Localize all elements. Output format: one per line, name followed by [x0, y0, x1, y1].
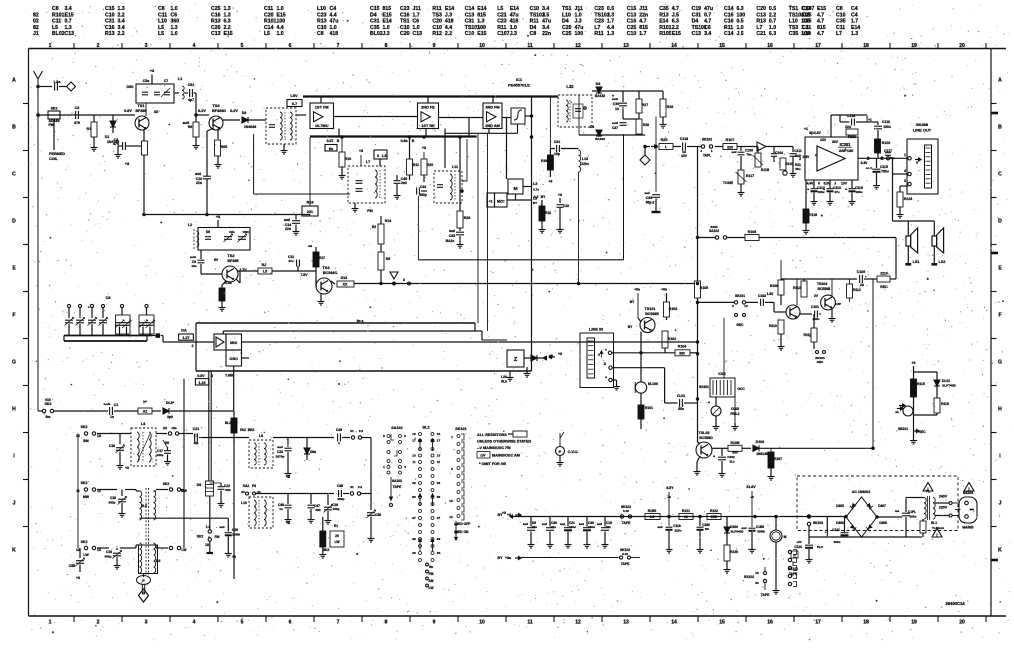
svg-text:1.5: 1.5 [650, 515, 655, 519]
svg-text:R101: R101 [645, 406, 653, 410]
svg-text:12: 12 [449, 515, 453, 519]
svg-text:SK102: SK102 [788, 567, 798, 571]
svg-text:SK2: SK2 [81, 425, 88, 429]
svg-text:MAINS: MAINS [962, 526, 974, 530]
svg-text:8.8: 8.8 [156, 559, 161, 563]
svg-text:C11: C11 [158, 12, 167, 18]
svg-text:4.4: 4.4 [445, 25, 452, 31]
svg-text:4.7: 4.7 [817, 12, 824, 18]
svg-text:18: 18 [863, 620, 869, 626]
svg-text:R11: R11 [497, 25, 506, 31]
svg-text:C25: C25 [627, 25, 637, 31]
svg-text:9: 9 [433, 43, 436, 49]
svg-text:33: 33 [755, 581, 759, 585]
svg-text:220u: 220u [675, 529, 682, 533]
svg-text:R112: R112 [853, 288, 861, 292]
svg-text:+3: +3 [232, 555, 236, 559]
svg-text:C25: C25 [562, 31, 572, 37]
svg-text:C106: C106 [857, 270, 865, 274]
svg-text:D1: D1 [105, 135, 110, 139]
svg-text:C16: C16 [106, 550, 112, 554]
svg-text:R65: R65 [221, 145, 227, 149]
svg-text:82: 82 [33, 25, 39, 31]
svg-text:TS4: TS4 [322, 265, 330, 270]
svg-text:100M: 100M [232, 533, 240, 537]
svg-text:L10: L10 [241, 501, 247, 505]
svg-text:0.10: 0.10 [622, 552, 628, 556]
svg-text:L11: L11 [452, 165, 458, 169]
svg-text:9Ln: 9Ln [501, 380, 507, 384]
svg-text:C25: C25 [802, 19, 812, 25]
svg-text:PERMED: PERMED [49, 152, 65, 156]
svg-text:15: 15 [719, 43, 725, 49]
svg-text:J11: J11 [413, 6, 421, 12]
svg-text:17: 17 [412, 439, 416, 443]
svg-text:R116: R116 [941, 402, 949, 406]
svg-text:2: 2 [192, 344, 194, 348]
svg-text:C31: C31 [465, 19, 475, 25]
svg-text:C20: C20 [432, 19, 442, 25]
svg-text:BA182: BA182 [595, 94, 605, 98]
svg-text:R27: R27 [642, 103, 648, 107]
svg-text:9: 9 [732, 304, 734, 308]
svg-text:L5V: L5V [290, 93, 298, 98]
svg-text:R11: R11 [594, 31, 603, 37]
svg-text:10: 10 [479, 620, 485, 626]
svg-text:SK103: SK103 [813, 521, 823, 525]
svg-text:1.0: 1.0 [510, 25, 517, 31]
svg-text:SK101: SK101 [735, 294, 745, 298]
svg-text:C16: C16 [109, 444, 115, 448]
svg-text:C31: C31 [692, 12, 702, 18]
svg-text:1.0: 1.0 [277, 6, 284, 12]
svg-text:C20: C20 [562, 25, 572, 31]
svg-text:R1: R1 [87, 127, 92, 131]
svg-text:SA102: SA102 [709, 229, 719, 233]
svg-text:TS104: TS104 [817, 282, 827, 286]
svg-text:E15: E15 [383, 12, 392, 18]
svg-text:6.3: 6.3 [737, 6, 744, 12]
svg-text:R11B: R11B [761, 168, 770, 172]
svg-text:29: 29 [412, 537, 416, 541]
svg-text:5: 5 [383, 434, 385, 438]
svg-text:M: M [513, 186, 517, 192]
svg-text:2.2: 2.2 [769, 12, 776, 18]
svg-text:360: 360 [171, 19, 180, 25]
svg-text:6s: 6s [329, 147, 333, 151]
svg-text:2.2: 2.2 [359, 429, 364, 433]
svg-text:1: 1 [904, 153, 906, 157]
svg-text:LW: LW [335, 540, 341, 544]
svg-text:+3: +3 [911, 361, 915, 365]
svg-text:5: 5 [451, 467, 453, 471]
svg-text:E14: E14 [445, 6, 454, 12]
svg-text:SK2: SK2 [163, 482, 170, 486]
svg-text:C6: C6 [171, 12, 178, 18]
svg-text:R13: R13 [545, 211, 551, 215]
svg-text:C107: C107 [802, 6, 814, 12]
svg-text:R10B: R10B [731, 441, 740, 445]
svg-text:AM: AM [428, 579, 433, 583]
svg-text:16: 16 [755, 571, 759, 575]
svg-text:10: 10 [479, 43, 485, 49]
svg-text:0.9a: 0.9a [401, 139, 408, 143]
svg-text:D405: D405 [836, 504, 844, 508]
svg-text:C: C [12, 172, 16, 178]
svg-text:aud: aud [277, 445, 283, 449]
svg-text:K: K [998, 548, 1002, 554]
svg-text:41u: 41u [551, 525, 556, 529]
svg-text:C21: C21 [756, 31, 766, 37]
svg-text:C16: C16 [724, 19, 734, 25]
svg-text:4.4: 4.4 [330, 12, 337, 18]
svg-text:Im a: Im a [357, 319, 364, 323]
svg-text:4.7: 4.7 [817, 19, 824, 25]
svg-text:120p: 120p [156, 453, 163, 457]
svg-text:4.7: 4.7 [672, 6, 679, 12]
svg-text:R104: R104 [678, 345, 686, 349]
svg-text:22n: 22n [285, 227, 291, 231]
svg-text:78a: 78a [746, 153, 751, 157]
svg-text:J.5: J.5 [542, 12, 549, 18]
svg-text:1.6V: 1.6V [767, 292, 775, 296]
svg-text:1.3: 1.3 [607, 31, 614, 37]
svg-text:1.7: 1.7 [413, 12, 420, 18]
svg-text:4/p: 4/p [194, 441, 199, 445]
svg-text:4p7: 4p7 [188, 98, 194, 102]
svg-text:2: 2 [97, 620, 100, 626]
svg-text:R101: R101 [659, 25, 671, 31]
svg-text:L5: L5 [264, 31, 270, 37]
svg-text:D13: D13 [341, 276, 347, 280]
svg-text:+1: +1 [804, 127, 808, 131]
svg-text:2n2: 2n2 [401, 181, 407, 185]
svg-text:C14: C14 [724, 31, 734, 37]
svg-text:aud: aud [284, 218, 290, 222]
svg-text:R105: R105 [700, 286, 708, 290]
svg-text:R13: R13 [211, 19, 221, 25]
svg-text:MZC: MZC [497, 200, 505, 204]
svg-text:(0): (0) [163, 426, 167, 430]
svg-text:R10: R10 [345, 157, 351, 161]
svg-text:B4103: B4103 [963, 491, 973, 495]
svg-text:2: 2 [404, 434, 406, 438]
svg-text:C10: C10 [530, 6, 540, 12]
svg-text:OSC: OSC [229, 356, 238, 361]
svg-text:16: 16 [437, 432, 441, 436]
svg-text:47u: 47u [575, 25, 584, 31]
svg-text:11: 11 [527, 620, 533, 626]
svg-text:21: 21 [350, 429, 354, 433]
svg-text:2.8P: 2.8P [835, 302, 841, 306]
svg-text:22u: 22u [845, 125, 851, 129]
svg-text:auG: auG [612, 97, 619, 101]
svg-text:19: 19 [911, 620, 917, 626]
svg-text:auG: auG [190, 255, 197, 259]
svg-text:C5a: C5a [143, 79, 149, 83]
svg-text:0.7: 0.7 [769, 19, 776, 25]
svg-text:0.7: 0.7 [704, 12, 711, 18]
svg-text:R12: R12 [432, 31, 442, 37]
svg-text:27: 27 [437, 516, 441, 520]
svg-text:L20: L20 [501, 375, 507, 379]
svg-text:C124: C124 [794, 545, 802, 549]
svg-text:AC 1N4002: AC 1N4002 [852, 490, 870, 494]
svg-text:C4: C4 [330, 6, 337, 12]
svg-text:L8: L8 [259, 434, 263, 438]
svg-text:3RD FM: 3RD FM [485, 106, 499, 110]
svg-text:3: 3 [904, 179, 906, 183]
svg-text:815: 815 [817, 25, 826, 31]
svg-text:02: 02 [33, 19, 39, 25]
svg-text:2Lu: 2Lu [729, 460, 734, 464]
svg-text:0.57: 0.57 [327, 139, 334, 143]
svg-text:7: 7 [337, 43, 340, 49]
svg-text:100u: 100u [883, 125, 891, 129]
svg-text:C61: C61 [188, 83, 194, 87]
svg-text:S102: S102 [710, 225, 717, 229]
svg-text:TS3: TS3 [212, 103, 220, 108]
svg-text:C5B: C5B [69, 564, 76, 568]
svg-text:REC: REC [737, 323, 745, 327]
svg-text:SK2: SK2 [81, 481, 88, 485]
svg-text:6: 6 [289, 620, 292, 626]
svg-text:XX: XX [343, 283, 348, 287]
svg-text:6.3: 6.3 [769, 31, 776, 37]
svg-text:3: 3 [377, 154, 379, 158]
svg-text:10V: 10V [841, 182, 848, 186]
svg-text:IC301: IC301 [840, 142, 852, 147]
svg-text:13: 13 [623, 43, 629, 49]
svg-text:aud: aud [523, 522, 528, 526]
svg-text:SA102: SA102 [391, 426, 402, 430]
svg-text:TAPE: TAPE [621, 562, 630, 566]
svg-text:+3: +3 [76, 576, 80, 580]
svg-text:C4: C4 [851, 6, 858, 12]
svg-text:R110: R110 [769, 324, 777, 328]
svg-text:FM: FM [215, 535, 220, 539]
svg-text:22n: 22n [542, 31, 551, 37]
svg-text:R167: R167 [774, 457, 782, 461]
svg-text:SK102: SK102 [702, 138, 712, 142]
svg-text:10.7MU: 10.7MU [315, 124, 329, 128]
svg-text:SLP341B: SLP341B [731, 530, 745, 534]
svg-text:J: J [13, 501, 16, 507]
svg-text:1: 1 [383, 465, 385, 469]
svg-text:REC: REC [880, 285, 888, 289]
svg-text:1.0: 1.0 [277, 31, 284, 37]
svg-text:3.4: 3.4 [704, 31, 711, 37]
svg-text:330: 330 [315, 508, 320, 512]
svg-text:56u: 56u [795, 167, 800, 171]
svg-text:47u: 47u [542, 19, 551, 25]
svg-text:uG: uG [308, 244, 313, 248]
svg-text:FM: FM [48, 123, 53, 127]
svg-text:10p: 10p [554, 152, 560, 156]
svg-text:SS101: SS101 [699, 385, 709, 389]
svg-text:BL02: BL02 [370, 31, 383, 37]
svg-text:TONE: TONE [723, 181, 734, 185]
svg-text:1.0: 1.0 [383, 25, 390, 31]
svg-text:+3: +3 [216, 214, 221, 219]
svg-text:R13: R13 [105, 31, 115, 37]
svg-text:C13: C13 [756, 12, 766, 18]
svg-text:1.0: 1.0 [171, 31, 178, 37]
svg-text:7: 7 [337, 620, 340, 626]
svg-text:TAPE: TAPE [393, 485, 402, 489]
svg-text:E15: E15 [477, 31, 486, 37]
svg-text:L: L [711, 149, 713, 153]
svg-text:J.3: J.3 [575, 19, 582, 25]
svg-text:16: 16 [97, 434, 101, 438]
svg-text:C11: C11 [802, 25, 811, 31]
svg-text:3: 3 [145, 43, 148, 49]
svg-text:C16: C16 [211, 12, 221, 18]
svg-text:IO16: IO16 [718, 372, 725, 376]
svg-text:D407: D407 [878, 504, 886, 508]
svg-text:R121: R121 [682, 509, 690, 513]
svg-text:300u: 300u [834, 540, 841, 544]
svg-text:+3: +3 [286, 521, 290, 525]
svg-text:BM: BM [83, 439, 89, 443]
svg-text:4: 4 [193, 43, 196, 49]
svg-text:ma: ma [895, 509, 900, 513]
svg-text:C8: C8 [836, 6, 843, 12]
svg-text:SK2: SK2 [197, 535, 204, 539]
svg-text:1: 1 [49, 43, 52, 49]
svg-text:30: 30 [412, 551, 416, 555]
svg-text:C.V.U.: C.V.U. [568, 450, 579, 454]
svg-text:SK488: SK488 [916, 122, 929, 127]
svg-text:8: 8 [385, 43, 388, 49]
svg-text:0.5: 0.5 [607, 6, 614, 12]
svg-text:11: 11 [437, 460, 441, 464]
svg-text:C20: C20 [211, 25, 221, 31]
svg-text:8(12.8V: 8(12.8V [809, 131, 821, 135]
svg-text:BF495: BF495 [135, 109, 146, 113]
svg-text:750u: 750u [881, 170, 889, 174]
svg-text:2: 2 [799, 157, 801, 161]
svg-text:2ND AM: 2ND AM [485, 124, 500, 128]
svg-text:R1: R1 [334, 524, 338, 528]
svg-text:P: P [559, 449, 562, 454]
svg-text:8L5: 8L5 [141, 504, 147, 508]
svg-text:D50: D50 [127, 85, 134, 89]
svg-text:aud: aud [579, 522, 584, 526]
svg-text:1N4648: 1N4648 [244, 125, 256, 129]
svg-text:J.3: J.3 [510, 31, 517, 37]
svg-text:31.8V: 31.8V [746, 485, 756, 489]
svg-text:B: B [337, 139, 340, 143]
svg-text:83: 83 [412, 495, 416, 499]
svg-text:C23: C23 [277, 450, 283, 454]
svg-text:10: 10 [449, 499, 453, 503]
svg-text:L5: L5 [158, 31, 164, 37]
svg-text:D4: D4 [530, 25, 537, 31]
svg-text:C20: C20 [756, 6, 766, 12]
svg-text:6.3: 6.3 [224, 19, 231, 25]
svg-text:2.2: 2.2 [445, 31, 452, 37]
svg-text:C18: C18 [110, 496, 116, 500]
svg-text:3.4: 3.4 [542, 25, 549, 31]
svg-text:SLPT43B: SLPT43B [942, 384, 956, 388]
svg-text:0.5: 0.5 [737, 19, 744, 25]
svg-text:--V MAINS/OSC FM: --V MAINS/OSC FM [477, 446, 511, 450]
svg-text:R5: R5 [386, 257, 391, 261]
svg-text:R18: R18 [643, 123, 649, 127]
svg-text:100: 100 [477, 25, 486, 31]
svg-text:C8: C8 [317, 31, 324, 37]
svg-text:1.9: 1.9 [382, 154, 387, 158]
svg-text:L5: L5 [263, 270, 267, 274]
svg-text:0.7: 0.7 [292, 101, 298, 106]
svg-text:LW: LW [429, 586, 435, 590]
svg-text:TAPL: TAPL [703, 154, 711, 158]
svg-text:C118: C118 [680, 137, 688, 141]
svg-text:13: 13 [623, 620, 629, 626]
svg-text:4X: 4X [154, 110, 159, 114]
svg-text:1ST FM: 1ST FM [315, 106, 329, 110]
svg-text:TS1: TS1 [137, 103, 145, 108]
svg-text:C1: C1 [114, 403, 119, 407]
svg-text:0.7s: 0.7s [533, 188, 539, 192]
svg-text:E15: E15 [817, 6, 826, 12]
svg-text:J.3: J.3 [383, 31, 390, 37]
svg-text:D103: D103 [756, 440, 764, 444]
svg-text:D104: D104 [730, 525, 738, 529]
svg-text:BL2: BL2 [225, 421, 231, 425]
svg-text:C13: C13 [692, 31, 702, 37]
svg-text:C13: C13 [413, 31, 423, 37]
svg-text:C20: C20 [264, 12, 274, 18]
svg-text:+3a: +3a [661, 288, 667, 292]
svg-text:J: J [999, 501, 1002, 507]
svg-text:D4: D4 [562, 19, 569, 25]
svg-text:47n: 47n [113, 142, 119, 146]
svg-text:aud: aud [644, 191, 649, 195]
svg-text:A: A [998, 78, 1002, 84]
svg-text:7.5V: 7.5V [300, 273, 308, 277]
svg-text:D4: D4 [590, 125, 594, 129]
svg-text:36400C14: 36400C14 [945, 601, 965, 606]
svg-text:I.IV: I.IV [481, 454, 487, 458]
svg-text:Sh2: Sh2 [240, 428, 246, 432]
svg-text:C102: C102 [727, 455, 735, 459]
svg-text:4.4V: 4.4V [807, 182, 815, 186]
svg-text:3p9: 3p9 [167, 415, 173, 419]
svg-text:1N4148: 1N4148 [756, 452, 768, 456]
svg-text:12: 12 [575, 43, 581, 49]
svg-text:ab: ab [895, 410, 899, 414]
svg-text:R11: R11 [724, 25, 733, 31]
svg-text:REC: REC [817, 360, 824, 364]
svg-text:10a: 10a [171, 426, 176, 430]
svg-text:C8: C8 [52, 6, 59, 12]
svg-text:L10: L10 [562, 12, 571, 18]
svg-text:TS1: TS1 [789, 6, 799, 12]
svg-text:C56: C56 [375, 513, 381, 517]
svg-text:C35: C35 [370, 25, 380, 31]
svg-text:C122: C122 [832, 528, 840, 532]
svg-text:8: 8 [385, 620, 388, 626]
svg-text:330: 330 [679, 352, 685, 356]
svg-text:C115: C115 [880, 165, 888, 169]
svg-text:23: 23 [241, 490, 245, 494]
svg-text:+3a: +3a [505, 556, 511, 560]
svg-text:h*: h* [143, 400, 147, 404]
svg-text:UNLESS OTHERWISE STATED: UNLESS OTHERWISE STATED [477, 440, 531, 444]
svg-text:BY: BY [541, 195, 546, 199]
